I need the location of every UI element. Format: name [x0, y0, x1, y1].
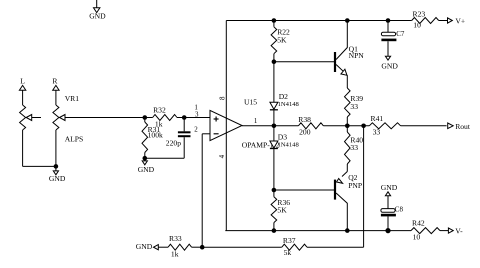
- diode D3 1N4148: [273, 126, 275, 141]
- svg-text:2: 2: [194, 126, 198, 134]
- junction R22/D2/Q1-base: [272, 59, 277, 64]
- V+ rail: [226, 20, 411, 22]
- svg-text:10: 10: [413, 232, 421, 241]
- svg-text:10: 10: [413, 21, 421, 30]
- ground GND (C7): [385, 56, 390, 60]
- wire inverting input: [202, 133, 210, 135]
- svg-text:200: 200: [299, 128, 311, 137]
- resistor R37: [202, 246, 282, 248]
- ground GND (C8) arrow: [385, 192, 390, 196]
- resistor R38: [298, 123, 323, 129]
- svg-text:33: 33: [350, 143, 358, 152]
- svg-text:1k: 1k: [171, 249, 179, 258]
- junction C7: [386, 18, 391, 23]
- junction D3/R36/Q2-base: [272, 188, 277, 193]
- junction C8 bottom: [385, 228, 390, 233]
- port V-: [448, 228, 453, 233]
- svg-text:220p: 220p: [166, 139, 181, 148]
- wire wiper to R32: [65, 117, 153, 119]
- resistor R32: [153, 115, 177, 121]
- resistor R39: [345, 88, 351, 117]
- svg-text:U15: U15: [244, 97, 257, 106]
- transistor Q1 NPN: [334, 52, 336, 72]
- wire op-amp output: [242, 125, 298, 127]
- resistor R23: [412, 18, 439, 24]
- feedback wire to R37: [363, 126, 365, 247]
- resistor R22: [273, 21, 275, 27]
- capacitor 220p: [183, 118, 185, 132]
- junction pots-gnd: [54, 164, 59, 169]
- diode D2 1N4148: [273, 62, 275, 103]
- wire pot bottoms: [23, 165, 56, 167]
- wire R31-bottom to cap bottom: [145, 157, 184, 159]
- svg-text:ALPS: ALPS: [65, 135, 84, 144]
- svg-text:5K: 5K: [277, 35, 287, 44]
- resistor R36: [273, 190, 275, 197]
- junction output/diodes: [272, 124, 277, 129]
- svg-text:33: 33: [350, 102, 358, 111]
- junction R36 bottom: [272, 228, 277, 233]
- resistor R31: [144, 118, 146, 123]
- resistor R40: [346, 126, 348, 132]
- op-amp power line pin8/pin4: [225, 21, 227, 231]
- svg-text:GND: GND: [136, 242, 153, 251]
- svg-text:PNP: PNP: [348, 181, 362, 190]
- junction Q2 collector: [345, 228, 350, 233]
- svg-text:VR1: VR1: [65, 94, 80, 103]
- svg-text:C7: C7: [396, 30, 405, 38]
- junction R39/R40 output node: [345, 124, 350, 129]
- svg-text:GND: GND: [381, 61, 398, 70]
- svg-text:33: 33: [373, 128, 381, 137]
- svg-text:1: 1: [254, 117, 258, 125]
- port V+: [448, 18, 453, 23]
- svg-text:R41: R41: [371, 114, 384, 123]
- svg-text:3: 3: [195, 110, 199, 118]
- svg-text:V+: V+: [455, 16, 465, 25]
- port Rout: [448, 123, 454, 129]
- op-amp U15: [210, 110, 242, 140]
- ground GND (R31): [144, 158, 146, 161]
- svg-text:V-: V-: [455, 226, 463, 235]
- ground GND (pots): [55, 166, 57, 171]
- resistor R33: [168, 244, 192, 250]
- svg-text:GND: GND: [89, 12, 106, 21]
- svg-text:8: 8: [218, 96, 226, 100]
- junction R31 bottom: [143, 156, 148, 161]
- svg-text:1N4148: 1N4148: [278, 101, 300, 108]
- svg-text:5K: 5K: [277, 205, 287, 214]
- capacitor C7: [387, 21, 389, 33]
- V- rail: [225, 230, 411, 232]
- junction 220p top: [182, 115, 187, 120]
- svg-text:GND: GND: [138, 165, 155, 174]
- svg-text:R23: R23: [413, 10, 426, 19]
- svg-text:Rout: Rout: [455, 122, 471, 131]
- potentiometer VR1 (R): [53, 105, 59, 130]
- transistor Q2 PNP: [334, 180, 336, 200]
- junction R22 top: [272, 18, 277, 23]
- junction feedback tap: [361, 124, 366, 129]
- junction R31 top: [143, 115, 148, 120]
- junction Q1 collector: [345, 18, 350, 23]
- svg-text:D3: D3: [278, 133, 287, 142]
- junction R33/R37/feedback: [200, 245, 205, 250]
- wire Q1 base: [274, 61, 334, 63]
- svg-text:100k: 100k: [148, 130, 163, 139]
- svg-text:C8: C8: [395, 206, 404, 214]
- svg-text:4: 4: [218, 154, 226, 158]
- svg-text:1N4148: 1N4148: [278, 142, 300, 149]
- port GND (top): [96, 0, 98, 8]
- svg-text:R38: R38: [298, 115, 311, 124]
- svg-text:D2: D2: [279, 92, 288, 101]
- svg-text:R37: R37: [283, 236, 296, 245]
- svg-text:R33: R33: [169, 234, 182, 243]
- svg-text:L: L: [20, 77, 25, 86]
- wire Q2 base: [274, 189, 334, 191]
- svg-text:GND: GND: [49, 174, 66, 183]
- svg-text:5k: 5k: [284, 248, 292, 257]
- svg-text:R42: R42: [412, 219, 425, 228]
- svg-text:NPN: NPN: [349, 51, 365, 60]
- svg-text:GND: GND: [381, 183, 398, 192]
- svg-text:R32: R32: [153, 106, 166, 115]
- resistor R42: [411, 228, 440, 234]
- potentiometer left section (L): [20, 105, 26, 130]
- resistor R41: [369, 123, 400, 129]
